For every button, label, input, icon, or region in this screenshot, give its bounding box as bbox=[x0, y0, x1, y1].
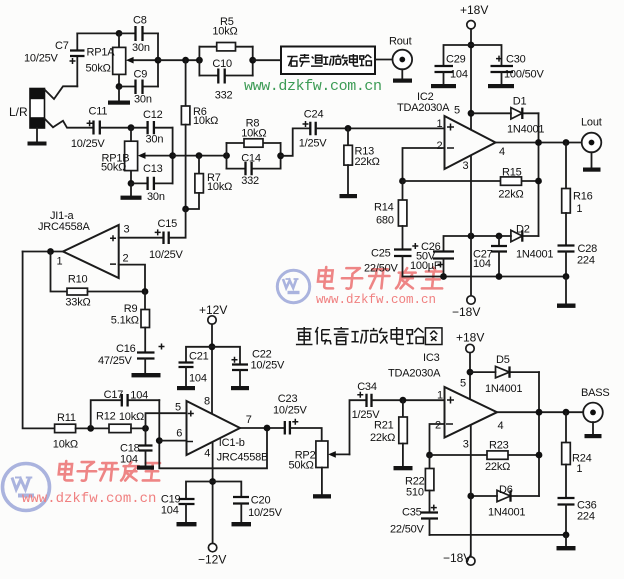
box: right channel amplifier 右声道功放电路 bbox=[281, 47, 375, 75]
terminal -12V bbox=[208, 543, 216, 551]
svg-text:50kΩ: 50kΩ bbox=[101, 162, 126, 174]
wire pin4 to -12V bbox=[212, 443, 214, 544]
svg-text:3: 3 bbox=[463, 160, 469, 172]
svg-text:1N4001: 1N4001 bbox=[488, 507, 525, 519]
svg-text:JRC4558B: JRC4558B bbox=[217, 452, 269, 464]
resistor R24 bbox=[565, 412, 567, 442]
svg-text:1N4001: 1N4001 bbox=[485, 383, 522, 395]
wire C17 bracket to pin6 and feedback bbox=[159, 400, 267, 468]
node (supply rail) bbox=[468, 42, 475, 49]
capacitor C17 bbox=[91, 400, 160, 428]
svg-text:C16: C16 bbox=[116, 343, 136, 355]
svg-text:10kΩ: 10kΩ bbox=[119, 411, 144, 423]
wire pin3 to -18V bbox=[470, 156, 472, 296]
wire long left vertical to R11 bbox=[23, 252, 55, 429]
svg-text:−18V: −18V bbox=[452, 305, 480, 319]
svg-text:C21: C21 bbox=[189, 351, 209, 363]
wire C23 to RP2 bbox=[291, 428, 322, 441]
resistor R22 bbox=[429, 455, 431, 469]
svg-text:10/25V: 10/25V bbox=[24, 52, 59, 64]
svg-text:R21: R21 bbox=[374, 420, 394, 432]
svg-text:10/25V: 10/25V bbox=[273, 405, 308, 417]
node (RP1A top) bbox=[116, 30, 123, 37]
svg-text:C7: C7 bbox=[55, 40, 69, 52]
svg-text:10/25V: 10/25V bbox=[149, 249, 184, 261]
wire C34 to IC3 pin1 bbox=[373, 399, 445, 401]
svg-text:C10: C10 bbox=[212, 58, 232, 70]
wire IC1-b output bbox=[240, 427, 284, 429]
svg-text:www.dzkfw.com.cn: www.dzkfw.com.cn bbox=[316, 293, 436, 307]
diode D1 1N4001 bbox=[471, 112, 539, 114]
ground (Rout) bbox=[393, 79, 412, 83]
wire to pin5 bbox=[146, 413, 187, 428]
svg-text:C13: C13 bbox=[143, 163, 163, 175]
svg-text:C17: C17 bbox=[104, 389, 124, 401]
resistor R9 bbox=[144, 292, 146, 310]
op-amp IC1-b JRC4558B bbox=[187, 401, 241, 455]
node (pin5/D1) bbox=[468, 110, 475, 117]
svg-text:C9: C9 bbox=[134, 69, 148, 81]
svg-text:6: 6 bbox=[176, 428, 182, 440]
capacitor C28 bbox=[558, 246, 575, 252]
svg-text:D5: D5 bbox=[496, 354, 510, 366]
svg-text:30n: 30n bbox=[132, 42, 150, 54]
svg-text:8: 8 bbox=[204, 396, 210, 408]
resistor R16 bbox=[565, 143, 567, 189]
svg-text:R12: R12 bbox=[96, 411, 116, 423]
wire pin2 to R9 node bbox=[119, 265, 145, 292]
capacitor C12 bbox=[131, 127, 173, 129]
svg-text:22kΩ: 22kΩ bbox=[498, 189, 523, 201]
svg-text:Rout: Rout bbox=[389, 36, 412, 48]
svg-text:C12: C12 bbox=[143, 109, 163, 121]
watermark logo W bottom-left bbox=[3, 464, 50, 511]
wire D2 line bbox=[444, 236, 539, 252]
wire to box bbox=[253, 59, 281, 61]
svg-text:JRC4558A: JRC4558A bbox=[38, 221, 90, 233]
svg-text:R10: R10 bbox=[68, 274, 88, 286]
capacitor C24 bbox=[310, 122, 315, 135]
svg-text:+18V: +18V bbox=[460, 3, 488, 17]
capacitor C30 bbox=[471, 45, 502, 66]
node (R11/R12/C17) bbox=[87, 425, 94, 432]
capacitor C36 bbox=[558, 498, 575, 505]
node (+12V rail) bbox=[209, 343, 216, 350]
capacitor C18 bbox=[145, 428, 147, 445]
svg-text:2: 2 bbox=[123, 253, 129, 265]
resistor R10 bbox=[51, 252, 68, 292]
wire pin2 feedback (IC3) bbox=[430, 424, 445, 455]
svg-text:332: 332 bbox=[215, 90, 233, 102]
svg-text:4: 4 bbox=[498, 420, 504, 432]
ground (BASS) bbox=[585, 434, 602, 438]
svg-text:10/25V: 10/25V bbox=[71, 138, 106, 150]
node (R5/C10 left) bbox=[196, 57, 203, 64]
node (RP1B bottom) bbox=[128, 180, 135, 187]
watermark logo W center bbox=[277, 270, 309, 302]
potentiometer RP1A bbox=[118, 33, 120, 86]
svg-text:C15: C15 bbox=[158, 218, 178, 230]
terminal Lout bbox=[582, 133, 602, 153]
wire box to Rout bbox=[375, 59, 393, 61]
svg-text:+18V: +18V bbox=[456, 331, 484, 345]
terminal -18V (IC3) bbox=[467, 557, 475, 565]
wire RP1B wiper line bbox=[173, 155, 227, 157]
svg-text:R9: R9 bbox=[124, 303, 138, 315]
resistor R5 bbox=[199, 46, 252, 48]
capacitor C9 bbox=[119, 86, 158, 88]
svg-text:22kΩ: 22kΩ bbox=[355, 156, 380, 168]
svg-text:30n: 30n bbox=[147, 191, 165, 203]
wire D5 down to output bbox=[538, 372, 540, 496]
node (RP1A bottom) bbox=[116, 83, 123, 90]
capacitor C10 bbox=[199, 75, 252, 77]
ground (Lout) bbox=[583, 168, 601, 172]
potentiometer RP1B bbox=[130, 128, 132, 184]
resistor R15 bbox=[403, 180, 539, 182]
title 重低音功放电路图 bbox=[296, 327, 442, 344]
node (R13 branch) bbox=[345, 125, 352, 132]
watermark red text bottom-left 电子开发王 bbox=[58, 461, 161, 481]
svg-text:30n: 30n bbox=[146, 134, 164, 146]
wire pin1 output bbox=[23, 251, 63, 253]
svg-text:−12V: −12V bbox=[198, 553, 226, 567]
resistor R12 bbox=[109, 424, 131, 432]
svg-text:47/25V: 47/25V bbox=[98, 355, 133, 367]
node (wiper line lower) bbox=[169, 152, 176, 159]
wire IC2 output bbox=[496, 142, 582, 144]
svg-text:IC3: IC3 bbox=[423, 352, 440, 364]
svg-text:10kΩ: 10kΩ bbox=[212, 26, 237, 38]
svg-text:104: 104 bbox=[189, 373, 207, 385]
svg-text:1: 1 bbox=[57, 256, 63, 268]
diode D2 1N4001 bbox=[511, 230, 522, 241]
svg-text:104: 104 bbox=[473, 258, 491, 270]
svg-text:C34: C34 bbox=[357, 381, 377, 393]
svg-text:4: 4 bbox=[204, 448, 210, 460]
svg-text:R23: R23 bbox=[489, 440, 509, 452]
svg-text:104: 104 bbox=[161, 505, 179, 517]
wire C7 to RP1A top bbox=[77, 32, 119, 34]
ground (R21) bbox=[394, 466, 413, 470]
ground (RP2) bbox=[313, 494, 331, 498]
capacitor C35 bbox=[421, 513, 438, 519]
terminal Rout bbox=[393, 50, 413, 70]
capacitor C14 bbox=[227, 168, 281, 170]
R8/C14 parallel right bracket bbox=[280, 143, 282, 169]
ground (RP1B) bbox=[121, 196, 142, 200]
capacitor C11 bbox=[94, 121, 100, 135]
svg-text:50kΩ: 50kΩ bbox=[289, 459, 314, 471]
ground (IC3 rail) bbox=[557, 546, 576, 550]
resistor R11 bbox=[55, 424, 76, 432]
svg-text:BASS: BASS bbox=[581, 387, 610, 399]
svg-text:C35: C35 bbox=[402, 507, 422, 519]
capacitor C15 bbox=[119, 237, 163, 239]
capacitor C22 bbox=[212, 347, 240, 364]
svg-text:R16: R16 bbox=[573, 191, 593, 203]
node (RP1B top) bbox=[128, 124, 135, 131]
svg-text:C25: C25 bbox=[371, 248, 391, 260]
capacitor C8 bbox=[119, 32, 158, 34]
svg-text:C23: C23 bbox=[278, 393, 298, 405]
svg-text:Lout: Lout bbox=[581, 117, 602, 129]
ground (RP1A) bbox=[108, 101, 130, 105]
svg-text:IC1-b: IC1-b bbox=[219, 437, 245, 449]
svg-text:RP1A: RP1A bbox=[87, 46, 116, 58]
wire C8/C9 bracket bbox=[157, 33, 159, 86]
ground (IC2 rail) bbox=[557, 304, 576, 308]
resistor R8 bbox=[227, 142, 281, 144]
svg-text:22/50V: 22/50V bbox=[364, 263, 399, 275]
svg-text:D2: D2 bbox=[516, 224, 530, 236]
capacitor C34 bbox=[367, 394, 372, 407]
svg-text:2: 2 bbox=[435, 420, 441, 432]
watermark red text center 电子开发主 bbox=[317, 267, 444, 289]
svg-text:R15: R15 bbox=[502, 167, 522, 179]
svg-text:1N4001: 1N4001 bbox=[516, 249, 553, 261]
svg-text:TDA2030A: TDA2030A bbox=[397, 102, 450, 114]
svg-text:100/50V: 100/50V bbox=[504, 69, 544, 81]
svg-text:1: 1 bbox=[576, 463, 582, 475]
capacitor C25 bbox=[394, 250, 412, 257]
capacitor C23 bbox=[285, 421, 290, 435]
ground rail (IC2) bbox=[403, 276, 567, 278]
R8/C14 parallel left bracket bbox=[223, 152, 230, 159]
svg-text:22kΩ: 22kΩ bbox=[370, 432, 395, 444]
R5/C10 parallel left bracket bbox=[198, 47, 200, 76]
resistor R23 bbox=[430, 454, 540, 456]
svg-text:10/25V: 10/25V bbox=[251, 360, 286, 372]
node (R12/C18/pin5) bbox=[142, 425, 149, 432]
svg-text:4: 4 bbox=[499, 146, 505, 158]
svg-text:2: 2 bbox=[437, 140, 443, 152]
svg-text:10kΩ: 10kΩ bbox=[193, 115, 218, 127]
svg-text:1/25V: 1/25V bbox=[299, 138, 328, 150]
svg-text:100µF: 100µF bbox=[410, 260, 441, 272]
svg-text:L/R: L/R bbox=[9, 105, 28, 119]
ground (R13) bbox=[340, 194, 358, 198]
svg-text:−18V: −18V bbox=[443, 551, 471, 565]
capacitor C7 bbox=[76, 33, 78, 86]
svg-text:1: 1 bbox=[437, 390, 443, 402]
diode D5 1N4001 bbox=[470, 371, 539, 373]
resistor R7 bbox=[198, 156, 200, 174]
diode D6 1N4001 bbox=[471, 495, 539, 497]
svg-text:+12V: +12V bbox=[199, 303, 227, 317]
wire jack upper contact arm bbox=[45, 86, 78, 99]
svg-text:C28: C28 bbox=[578, 243, 598, 255]
svg-text:www.dzkfw.com.cn: www.dzkfw.com.cn bbox=[22, 491, 156, 507]
svg-text:332: 332 bbox=[241, 175, 259, 187]
svg-text:10/25V: 10/25V bbox=[248, 507, 283, 519]
op-amp IC3 TDA2030A bbox=[445, 387, 498, 438]
terminal -18V (IC2) bbox=[467, 296, 475, 304]
svg-text:5: 5 bbox=[454, 105, 460, 117]
svg-text:www.dzkfw.com.cn: www.dzkfw.com.cn bbox=[244, 78, 382, 95]
capacitor C29 bbox=[444, 45, 472, 66]
wire RP1A wiper line bbox=[158, 59, 199, 61]
svg-text:22kΩ: 22kΩ bbox=[485, 461, 510, 473]
wire jack lower contact arm bbox=[45, 119, 93, 128]
svg-text:C11: C11 bbox=[89, 106, 108, 118]
capacitor C16 bbox=[137, 353, 155, 359]
node (wiper line / bracket) bbox=[155, 57, 162, 64]
svg-text:5: 5 bbox=[175, 402, 181, 414]
svg-text:10kΩ: 10kΩ bbox=[241, 128, 266, 140]
resistor R21 bbox=[402, 400, 404, 417]
resistor R6 bbox=[185, 60, 187, 106]
wire IC3 output to BASS bbox=[497, 411, 583, 413]
svg-text:TDA2030A: TDA2030A bbox=[388, 368, 441, 380]
capacitor C27 bbox=[498, 236, 500, 246]
svg-text:1: 1 bbox=[437, 118, 443, 130]
svg-text:22/50V: 22/50V bbox=[390, 524, 425, 536]
wire pin3 to -18V (IC3) bbox=[470, 425, 472, 557]
svg-text:5: 5 bbox=[460, 378, 466, 390]
svg-text:50kΩ: 50kΩ bbox=[86, 63, 111, 75]
ground (C16) bbox=[132, 373, 161, 377]
resistor R13 bbox=[347, 128, 349, 145]
svg-text:510: 510 bbox=[406, 487, 424, 499]
capacitor C21 bbox=[186, 347, 212, 362]
svg-text:224: 224 bbox=[577, 255, 595, 267]
svg-text:1: 1 bbox=[576, 203, 582, 215]
svg-text:30n: 30n bbox=[134, 94, 152, 106]
svg-text:C14: C14 bbox=[241, 153, 261, 165]
ground (jack) bbox=[28, 142, 47, 146]
node (D5 branch) bbox=[467, 369, 474, 376]
node (R6/R7/C15 junction) bbox=[182, 206, 189, 213]
op-amp IC2 TDA2030A bbox=[445, 116, 496, 169]
terminal BASS bbox=[583, 403, 603, 423]
svg-text:3: 3 bbox=[124, 224, 130, 236]
svg-text:C29: C29 bbox=[446, 54, 466, 66]
resistor R14 bbox=[402, 181, 404, 200]
svg-text:104: 104 bbox=[120, 454, 138, 466]
node (R7 branch) bbox=[196, 152, 203, 159]
svg-text:104: 104 bbox=[450, 69, 468, 81]
svg-text:C24: C24 bbox=[304, 108, 324, 120]
potentiometer RP2 bbox=[316, 441, 328, 468]
wire D1 down to output bbox=[538, 113, 540, 236]
svg-text:10kΩ: 10kΩ bbox=[53, 439, 78, 451]
wire C12/C13 bracket bbox=[172, 128, 174, 184]
svg-text:C8: C8 bbox=[133, 15, 147, 27]
svg-text:33kΩ: 33kΩ bbox=[65, 297, 90, 309]
svg-text:224: 224 bbox=[577, 511, 595, 523]
capacitor C20 bbox=[213, 482, 242, 497]
capacitor C26 bbox=[433, 252, 454, 259]
capacitor C13 bbox=[131, 182, 173, 184]
R5/C10 parallel right bracket bbox=[252, 47, 254, 76]
svg-text:C30: C30 bbox=[506, 54, 526, 66]
ground rail (IC3) bbox=[430, 534, 567, 536]
svg-text:D6: D6 bbox=[499, 484, 513, 496]
svg-text:7: 7 bbox=[246, 414, 252, 426]
node (R6 branch) bbox=[182, 57, 189, 64]
svg-text:104: 104 bbox=[130, 390, 148, 402]
wire C24 to IC2 pin1 bbox=[317, 127, 445, 129]
svg-text:R14: R14 bbox=[374, 202, 394, 214]
capacitor C19 bbox=[186, 482, 213, 499]
svg-text:C20: C20 bbox=[251, 495, 271, 507]
svg-text:R11: R11 bbox=[57, 412, 76, 424]
svg-text:D1: D1 bbox=[513, 96, 527, 108]
node (R10/R9/pin2) bbox=[142, 288, 149, 295]
svg-text:680: 680 bbox=[376, 215, 394, 227]
wire C11 to node bbox=[101, 127, 131, 129]
svg-text:10kΩ: 10kΩ bbox=[207, 181, 232, 193]
input jack L/R bbox=[30, 88, 45, 141]
op-amp JI1-a JRC4558A bbox=[63, 225, 119, 278]
wire to C24 bbox=[281, 128, 310, 155]
svg-text:3: 3 bbox=[463, 439, 469, 451]
svg-text:5.1kΩ: 5.1kΩ bbox=[111, 315, 139, 327]
wire wiper to C34 bbox=[350, 400, 366, 454]
wire pin2 feedback bbox=[403, 148, 445, 181]
